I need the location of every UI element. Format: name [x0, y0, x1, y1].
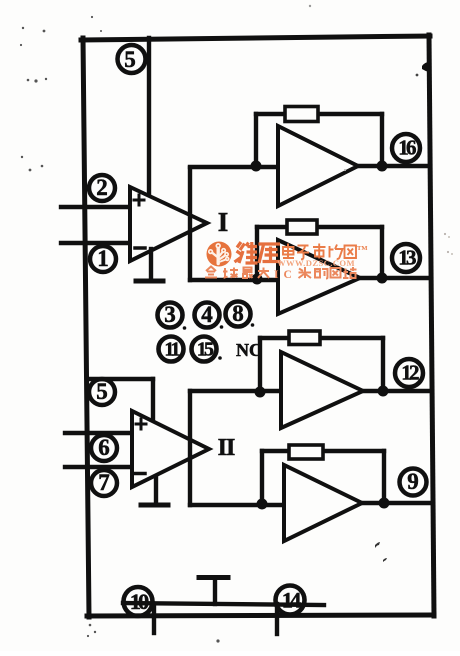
- pin 4 (NC): [195, 302, 224, 329]
- op-amp II: [132, 411, 209, 487]
- svg-text:12: 12: [401, 361, 419, 385]
- wire buffer A4 output to pin 9: [362, 501, 430, 505]
- wire buffer A3 output to pin 12: [363, 389, 430, 393]
- svg-text:11: 11: [164, 339, 179, 361]
- wire feedback loop buffer A4: [262, 451, 384, 504]
- svg-text:7: 7: [98, 470, 110, 495]
- watermark text dzsc outline: [283, 244, 356, 260]
- node junction buffer A3 output: [378, 386, 389, 397]
- resistor R1: [285, 107, 318, 122]
- node junction buffer A1 output: [377, 161, 388, 172]
- svg-text:WWW.DZSC.COM: WWW.DZSC.COM: [277, 258, 355, 268]
- svg-text:3: 3: [164, 302, 176, 327]
- ground below op-amp I: [136, 249, 163, 281]
- wire inverting input of op-amp I: [61, 241, 130, 245]
- pin 5 (top): [118, 45, 146, 73]
- ground at bottom bus: [199, 578, 228, 605]
- wire non-inverting input of op-amp II: [65, 431, 132, 435]
- svg-text:I: I: [218, 207, 229, 237]
- pin 11 (NC): [159, 337, 184, 362]
- wire non-inverting input of op-amp I: [61, 205, 130, 209]
- pin 12: [395, 359, 423, 387]
- wire feedback loop buffer A1: [256, 114, 382, 166]
- wire buffer A1 output to pin 16: [358, 164, 430, 168]
- pin 13: [392, 244, 420, 272]
- ground below op-amp II: [141, 477, 168, 505]
- resistor R4: [289, 445, 323, 459]
- wire feedback loop buffer A3: [260, 338, 383, 392]
- pin 5: [89, 379, 115, 405]
- svg-text:13: 13: [398, 246, 416, 270]
- watermark text weiku: [235, 242, 281, 263]
- svg-text:II: II: [218, 435, 235, 461]
- pin 8 (NC): [226, 301, 255, 327]
- svg-text:14: 14: [282, 588, 301, 613]
- svg-text:IC: IC: [274, 269, 297, 281]
- node junction buffer A3 input: [255, 387, 266, 398]
- svg-text:4: 4: [201, 302, 213, 327]
- pin 16: [392, 134, 420, 162]
- buffer A2: [278, 240, 360, 314]
- svg-text:10: 10: [130, 589, 149, 614]
- pin 14: [276, 586, 305, 615]
- wire inverting input of op-amp II: [65, 465, 132, 469]
- wire op-amp I output to buffers A1/A2: [190, 167, 278, 280]
- watermark logo: [207, 242, 232, 267]
- pin lead 14: [275, 604, 279, 634]
- op-amp I: [130, 187, 207, 261]
- pin 1: [90, 246, 116, 272]
- svg-text:5: 5: [96, 379, 108, 404]
- buffer A3: [281, 352, 363, 428]
- resistor R3: [289, 331, 320, 345]
- wire pin5 lead to op-amp II: [88, 379, 153, 422]
- svg-text:5: 5: [124, 47, 136, 72]
- buffer A1: [278, 126, 358, 206]
- node junction buffer A4 output: [379, 498, 390, 509]
- svg-text:9: 9: [407, 469, 419, 494]
- node junction buffer A4 input: [257, 499, 268, 510]
- node junction buffer A1 input: [251, 161, 262, 172]
- svg-text:16: 16: [398, 136, 416, 160]
- pin 2: [89, 175, 115, 201]
- resistor R2: [287, 220, 317, 234]
- node junction buffer A2 input: [252, 274, 263, 285]
- svg-text:8: 8: [232, 301, 244, 326]
- watermark slogan: [205, 267, 269, 279]
- pin lead 10: [152, 604, 156, 633]
- svg-text:2: 2: [96, 175, 108, 200]
- svg-text:1: 1: [97, 246, 109, 271]
- wire buffer A2 output to pin 13: [360, 276, 430, 280]
- pin 6: [91, 435, 117, 461]
- IC package outline: [81, 35, 434, 617]
- svg-text:6: 6: [98, 435, 110, 460]
- wire feedback loop buffer A2: [257, 227, 382, 279]
- pin 9: [400, 469, 427, 496]
- wire op-amp II output to buffers A3/A4: [190, 391, 284, 505]
- node junction buffer A2 output: [377, 273, 388, 284]
- wire ground bus pins 10-14: [123, 603, 324, 605]
- wire pin5-top lead to op-amp I: [147, 38, 151, 196]
- pin 3 (NC): [158, 302, 187, 330]
- pin 7: [91, 470, 117, 496]
- buffer A4: [284, 465, 362, 541]
- pin 10: [124, 587, 153, 616]
- svg-text:TM: TM: [357, 245, 367, 252]
- pin 15 (NC): [192, 337, 222, 362]
